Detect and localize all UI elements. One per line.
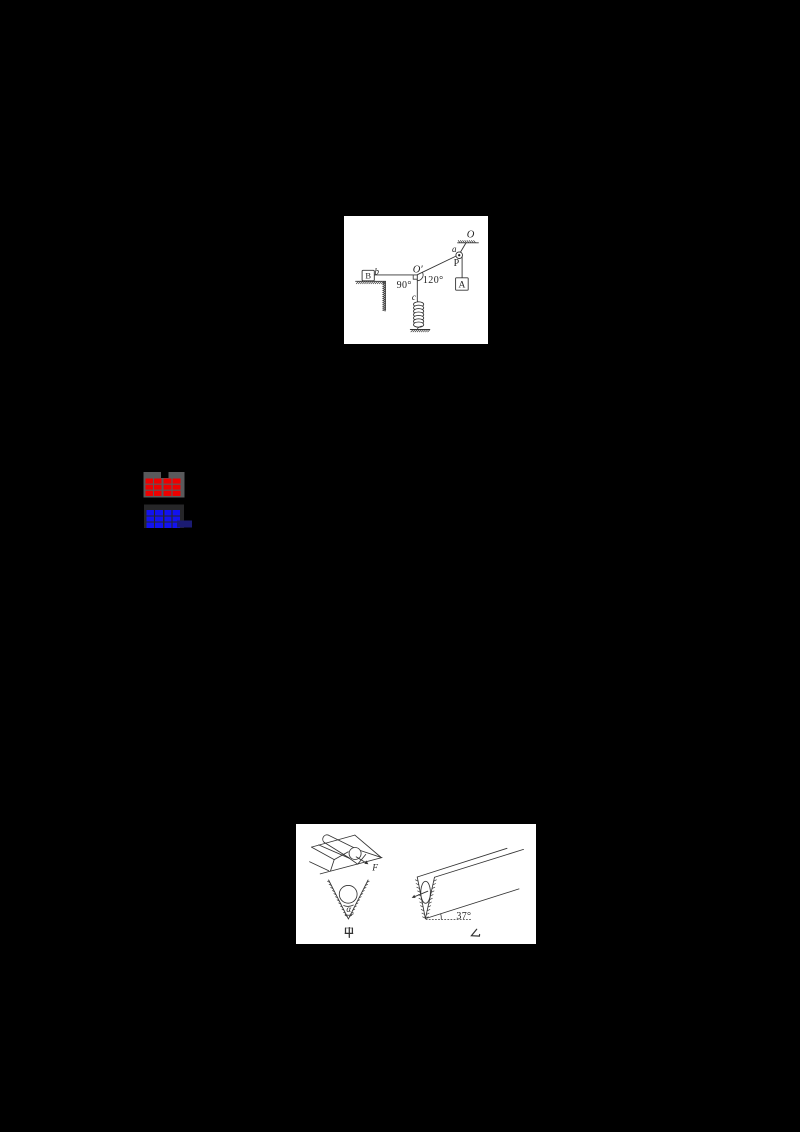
label yi (right figure) (471, 929, 479, 936)
incline V left hatching (415, 880, 425, 918)
spring bottom hook (417, 326, 421, 329)
3d trough top-right edge (355, 835, 381, 857)
3d trough top-left edge (312, 835, 355, 847)
3d trough front edge (320, 858, 382, 874)
wall hatching zigzag (383, 282, 385, 311)
block A (456, 278, 469, 290)
dashed horizontal reference (426, 918, 472, 920)
right angle marker at O' (413, 275, 417, 279)
wire O to pulley P (460, 243, 466, 253)
ground under spring (410, 329, 430, 331)
cylinder cross-section ellipse (421, 881, 431, 903)
groove end notch right (358, 854, 366, 864)
groove end notch left (350, 858, 358, 864)
incline V left edge (417, 877, 425, 919)
ground hatching under spring (411, 330, 430, 332)
cylinder bottom side (324, 842, 349, 858)
ball in V groove (339, 885, 357, 903)
groove far opening edge (360, 851, 381, 858)
lower angle arc (345, 914, 353, 915)
spring coil (414, 302, 424, 327)
svg-text:F: F (371, 863, 378, 873)
V right hatching (349, 881, 369, 916)
3d trough lower-left line (310, 862, 329, 871)
groove left opening edge (334, 852, 348, 860)
incline V right hatching (426, 880, 437, 918)
answer tag red background (144, 472, 185, 498)
wall edge (384, 281, 386, 310)
wire B to O' (374, 274, 417, 276)
svg-text:O: O (467, 230, 475, 241)
wire pulley to block A (461, 257, 463, 278)
cylinder far end cap (323, 835, 328, 843)
svg-text:B: B (365, 271, 371, 281)
cylinder top side (328, 835, 354, 848)
wire O' to pulley P (417, 256, 456, 275)
incline bottom long edge (425, 889, 519, 919)
answer tag red text (146, 479, 181, 497)
cross-section V left side (329, 880, 349, 919)
wire c from O' to spring (417, 275, 420, 303)
label jia (left figure) (345, 928, 353, 938)
svg-text:120°: 120° (423, 275, 444, 286)
incline top-left long edge (417, 848, 507, 877)
ground hatching under B (356, 282, 385, 284)
svg-text:P: P (454, 258, 460, 269)
angle arc 120deg at O' (417, 272, 423, 280)
arrow out of groove (415, 891, 428, 896)
angle arc 37deg (440, 914, 443, 919)
svg-text:90°: 90° (397, 280, 412, 291)
block B (362, 270, 374, 281)
svg-text:b: b (375, 266, 380, 276)
figure panel 1 background (344, 216, 488, 344)
ground under B (356, 280, 386, 282)
force arrow F (356, 857, 366, 863)
svg-text:37°: 37° (456, 911, 471, 922)
figure panel 2 background (296, 824, 536, 944)
3d trough left end wall edge (331, 860, 335, 871)
svg-text:c: c (412, 292, 416, 302)
V left hatching (328, 881, 348, 916)
answer tag navy block (177, 521, 192, 528)
cylinder near end face (349, 848, 361, 860)
answer tag blue background (144, 505, 192, 529)
3d trough left end top edge (312, 847, 335, 860)
svg-text:a: a (452, 244, 457, 254)
cross-section V right side (348, 880, 368, 919)
pulley P (456, 252, 463, 259)
incline V right edge (425, 877, 434, 918)
upper chord arc (344, 905, 354, 906)
ceiling hatching (458, 241, 475, 243)
answer tag blue text (147, 510, 181, 528)
ceiling support at O (458, 242, 479, 244)
svg-text:α: α (346, 904, 351, 914)
groove near opening edge (319, 845, 350, 858)
svg-text:O′: O′ (413, 265, 424, 276)
incline top-right long edge (435, 849, 524, 877)
svg-text:A: A (458, 281, 465, 291)
